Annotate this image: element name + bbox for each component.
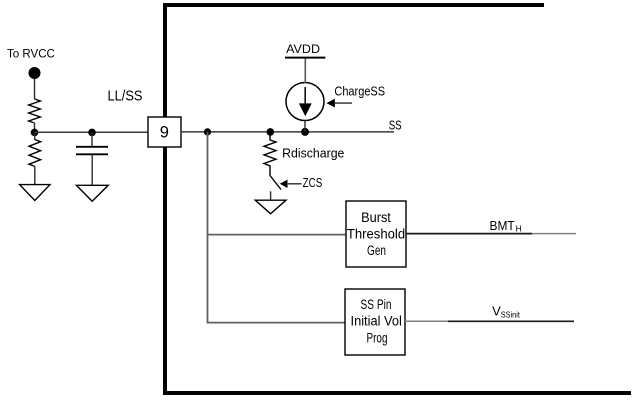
wire: node to R-lower <box>34 133 36 140</box>
svg-text:Gen: Gen <box>367 243 386 258</box>
wire: switch to ground <box>270 191 272 200</box>
capacitor C1 top plate <box>76 146 108 148</box>
Burst Threshold Gen box <box>346 201 406 267</box>
ChargeSS pointer arrowhead <box>326 99 335 108</box>
switch blade (ZCS controlled) <box>270 176 281 190</box>
junction: branch node to logic <box>204 128 211 135</box>
resistor Rdischarge <box>264 132 276 176</box>
wire: current source bottom lead <box>304 121 306 132</box>
wire: BMTH output gray tail <box>532 233 576 235</box>
svg-text:ChargeSS: ChargeSS <box>334 84 385 99</box>
wire: ChargeSS pointer tail <box>334 102 352 104</box>
current source arrow shaft <box>304 87 306 104</box>
ground GND3 <box>255 200 286 214</box>
svg-text:To RVCC: To RVCC <box>7 47 55 61</box>
junction: Rdischarge node <box>267 128 275 136</box>
svg-text:9: 9 <box>160 123 169 141</box>
wire: vertical branch to boxes <box>207 132 209 323</box>
svg-text:LL/SS: LL/SS <box>108 87 143 104</box>
AVDD power bar <box>285 57 325 59</box>
SS Pin Initial Vol Prog box <box>345 289 405 355</box>
wire: cap node to top plate <box>91 132 93 146</box>
wire: BMTH output <box>406 233 532 235</box>
resistor R-lower (to ground) <box>29 140 41 167</box>
pin 9 box <box>148 117 181 147</box>
svg-text:AVDD: AVDD <box>286 42 320 56</box>
wire: branch to SS Pin Initial Vol Prog <box>207 322 345 324</box>
junction: left node <box>31 129 39 137</box>
IC boundary (chip outline) <box>165 5 631 393</box>
svg-text:SS: SS <box>389 117 402 132</box>
svg-text:Rdischarge: Rdischarge <box>282 146 344 160</box>
resistor R-upper (from RVCC) <box>29 99 41 123</box>
svg-text:Burst: Burst <box>361 210 391 225</box>
svg-text:Threshold: Threshold <box>347 227 405 242</box>
wire: VSSinit output <box>448 320 574 322</box>
capacitor C1 bottom plate <box>76 153 108 155</box>
svg-text:SS Pin: SS Pin <box>361 297 392 312</box>
current source ChargeSS circle <box>286 83 324 121</box>
wire: To RVCC lead <box>34 78 36 99</box>
svg-text:H: H <box>516 224 522 234</box>
junction: capacitor node <box>88 129 96 137</box>
wire: left node to pin 9 <box>35 131 149 133</box>
svg-text:BMT: BMT <box>490 218 515 233</box>
svg-text:SSinit: SSinit <box>501 310 521 319</box>
ground GND1 <box>20 185 50 201</box>
wire: R-upper to node <box>34 123 36 132</box>
svg-text:Prog: Prog <box>367 331 388 346</box>
svg-text:ZCS: ZCS <box>303 175 323 190</box>
wire: R-lower to ground <box>34 166 36 184</box>
current source arrowhead <box>299 103 312 116</box>
junction: current source node <box>301 128 309 136</box>
wire: cap bottom plate to ground <box>91 154 93 185</box>
ground GND2 <box>76 185 108 201</box>
wire: AVDD lead <box>304 58 306 83</box>
svg-text:Initial Vol: Initial Vol <box>351 313 402 328</box>
wire: branch to Burst Threshold Gen <box>207 234 346 236</box>
wire: ZCS arrow tail <box>287 183 302 185</box>
wire: VSSinit output gray head <box>405 320 448 322</box>
node: To RVCC terminal <box>29 67 41 79</box>
ZCS control arrowhead <box>280 180 288 188</box>
wire: SS net from pin 9 <box>181 131 394 133</box>
